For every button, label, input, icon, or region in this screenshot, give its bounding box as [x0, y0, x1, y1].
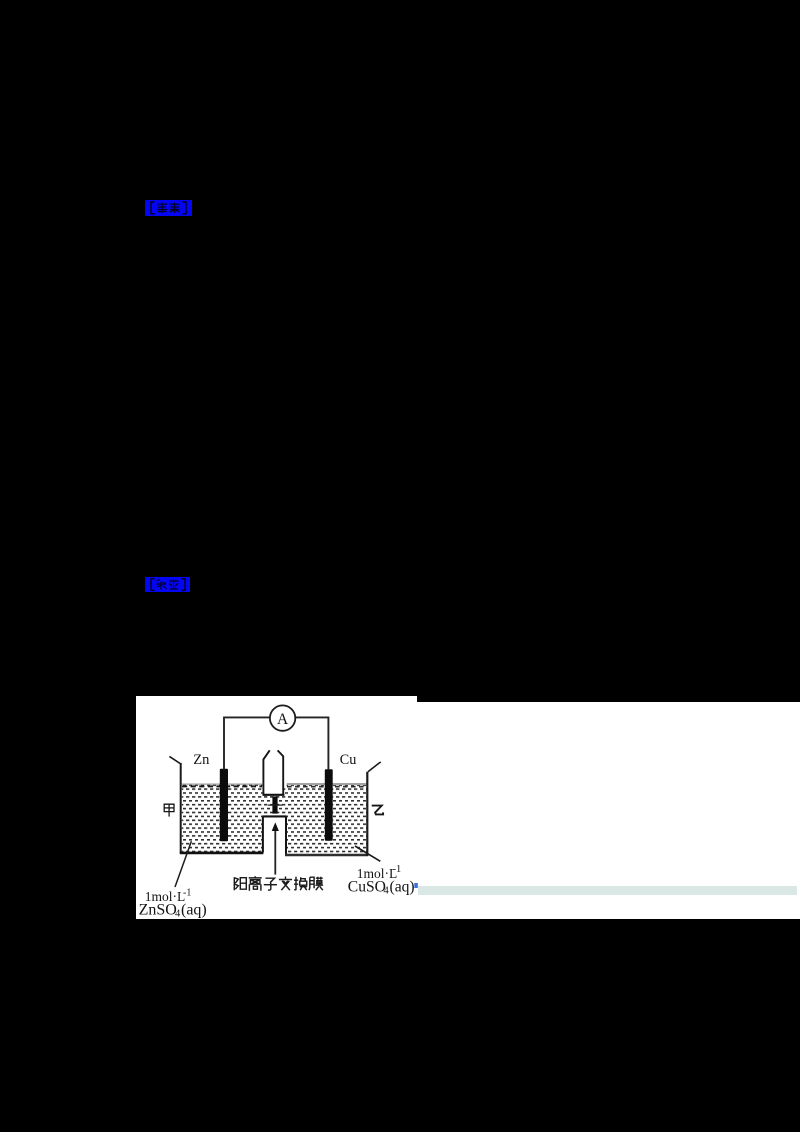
wire right horizontal: [296, 716, 330, 718]
left beaker spout: [169, 756, 180, 763]
svg-text:CuSO: CuSO: [348, 879, 386, 896]
electrode Zn bar: [220, 769, 228, 841]
label jia (left cell): [164, 804, 174, 816]
blue caret mark: [414, 883, 418, 888]
left beaker wall: [180, 763, 182, 853]
analysis label blue box: [145, 577, 191, 592]
arrow to membrane: [272, 822, 279, 874]
left beaker bottom: [180, 852, 264, 855]
notch right wall: [285, 816, 287, 854]
svg-text:-1: -1: [393, 864, 402, 875]
notch left wall: [262, 816, 264, 852]
white panel main (diagram background): [136, 696, 417, 919]
wire to Cu electrode: [327, 717, 329, 770]
solution fill left beaker: [182, 785, 263, 853]
right beaker bottom: [285, 854, 368, 857]
char zi3: [264, 878, 277, 890]
right beaker wall: [366, 772, 368, 856]
svg-text:(aq): (aq): [181, 901, 207, 918]
char li2: [249, 876, 262, 891]
liquid surface left: [182, 784, 262, 786]
solution fill right beaker: [287, 783, 367, 854]
char huan4: [294, 877, 307, 891]
ammeter A: [270, 705, 295, 730]
wire left horizontal: [223, 716, 270, 718]
svg-text:-1: -1: [183, 887, 191, 898]
white band right of diagram: [417, 702, 800, 919]
svg-text:Cu: Cu: [340, 752, 357, 768]
highlight strip (pale green): [418, 886, 797, 895]
char yang2: [234, 877, 246, 890]
notch roof: [263, 815, 287, 817]
right beaker spout: [368, 762, 381, 772]
wire to Zn electrode: [223, 717, 225, 769]
label cation exchange membrane: [234, 876, 323, 891]
char mo2: [309, 877, 323, 891]
svg-text:ZnSO: ZnSO: [139, 901, 177, 918]
svg-text:(aq): (aq): [390, 879, 415, 896]
pointer line right: [355, 846, 380, 861]
solution fill middle channel: [263, 787, 287, 817]
pointer line left: [175, 841, 191, 887]
label CuSO4(aq): [348, 879, 415, 897]
answer label blue box: [145, 200, 192, 216]
char jiao1: [279, 877, 292, 891]
label 1 mol per L left: [145, 887, 192, 904]
electrode Cu bar: [325, 769, 333, 840]
glass tube (salt-bridge tube): [263, 750, 285, 795]
label ZnSO4(aq): [139, 901, 207, 919]
svg-text:A: A: [277, 711, 289, 728]
membrane bar: [272, 796, 277, 813]
membrane tick: [268, 804, 283, 806]
cell diagram svg: [136, 696, 418, 919]
liquid surface right: [287, 784, 367, 787]
label 1 mol per L right: [357, 864, 401, 881]
svg-text:Zn: Zn: [193, 752, 210, 768]
label yi (right cell): [372, 806, 383, 815]
